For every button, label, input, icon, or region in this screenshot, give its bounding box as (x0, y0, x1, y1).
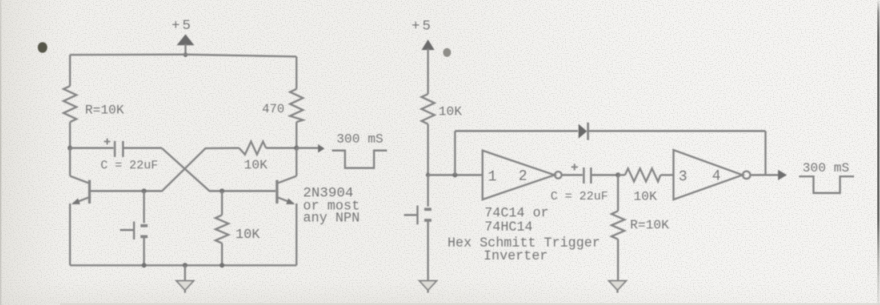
inverter U1A (pins 1,2) (483, 151, 555, 200)
node: Q1 collector junction (68, 146, 73, 151)
bubble U1A (555, 172, 562, 179)
svg-text:R=10K: R=10K (630, 218, 669, 233)
resistor R3 470 (290, 89, 303, 122)
wire: collector node to C1 (70, 147, 114, 149)
wire: C3 to node (592, 174, 618, 176)
wire: feedback vertical left (454, 131, 456, 175)
transistor Q2 (2N3904) (277, 148, 297, 204)
svg-text:1: 1 (488, 170, 497, 186)
wire: left vertical, top rail to R1 (69, 55, 71, 86)
power arrow +5 (left) (177, 34, 195, 45)
wire: R3 to output node (296, 122, 298, 148)
transistor Q1 (2N3904, mirrored) (70, 176, 90, 204)
svg-text:10K: 10K (439, 104, 463, 119)
wire: R2 to crossover diagonal to Q1 base (91, 148, 240, 191)
wire: Q1 emitter to bottom rail (69, 204, 71, 266)
svg-text:any NPN: any NPN (303, 212, 360, 227)
ground (right circuit, input rail) (419, 281, 436, 293)
svg-text:2: 2 (519, 169, 528, 185)
wire: top rail right vertical to R3 (296, 57, 298, 89)
polarity + for C3 (571, 164, 578, 171)
resistor R5 10K (422, 94, 435, 124)
capacitor C2 (vertical) (143, 191, 145, 223)
svg-text:C = 22uF: C = 22uF (551, 190, 609, 204)
svg-text:4: 4 (712, 169, 721, 185)
output arrow (left circuit) (297, 147, 319, 149)
svg-text:Inverter: Inverter (484, 250, 548, 265)
node: C2 top junction (142, 189, 147, 194)
svg-text:C = 22uF: C = 22uF (101, 159, 159, 173)
wire: output node to R2 (266, 147, 297, 149)
node: feedback tap (453, 173, 458, 178)
capacitor C3 (22uF) plates (583, 168, 585, 184)
wire: C1 to crossover (124, 147, 162, 149)
resistor R6 10K horizontal (618, 169, 674, 182)
wire: node down to Q1 collector (69, 148, 71, 176)
resistor R7 (R=10K vertical) (612, 175, 625, 286)
polarity + for C1 (104, 138, 110, 144)
output arrow (right circuit) (778, 170, 787, 181)
waveform (left) (332, 151, 387, 169)
waveform (right) (799, 176, 854, 193)
svg-text:R=10K: R=10K (85, 103, 124, 118)
inverter U1B (pins 3,4) (674, 150, 743, 200)
node: R4 bottom (220, 263, 225, 268)
node: input rail junction (426, 173, 430, 177)
wire: crossover diagonal to Q2 base (162, 148, 276, 191)
wire: R1 to collector node (69, 122, 71, 148)
resistor R4 10K (base pulldown) (216, 191, 229, 265)
node: R4 top (220, 189, 225, 194)
svg-text:10K: 10K (236, 228, 261, 243)
wire: R5 to input node (427, 124, 429, 175)
wire: U1B output to arrow (751, 174, 779, 176)
wire: bottom rail (70, 264, 297, 266)
polarity mark for C2 (120, 222, 134, 240)
diode D1 (579, 124, 588, 139)
svg-text:470: 470 (262, 103, 285, 117)
bubble U1B (743, 171, 751, 179)
svg-text:+5: +5 (172, 18, 194, 34)
wire: feedback vertical right (765, 131, 767, 175)
svg-text:300 mS: 300 mS (337, 132, 384, 147)
resistor R1 (64, 86, 77, 122)
node: Q2 collector / output (294, 146, 299, 151)
svg-text:10K: 10K (634, 189, 658, 204)
capacitor C1 (22uF) plates (114, 141, 116, 157)
wire: feedback top left segment (455, 130, 578, 132)
node: R6/R7 junction (616, 173, 621, 178)
node: ground tap (183, 263, 188, 268)
wire: U1A output to C3 (562, 174, 583, 176)
wire: Q2 emitter to bottom rail (296, 204, 298, 266)
ground (left circuit) (176, 265, 193, 293)
svg-text:3: 3 (679, 170, 688, 186)
wire: top rail (70, 55, 297, 57)
svg-text:74HC14: 74HC14 (485, 221, 533, 236)
svg-text:300 mS: 300 mS (803, 161, 850, 176)
wire: feedback top right segment (588, 130, 766, 132)
resistor R2 10K horizontal (239, 142, 266, 155)
wire: rail to inverter 1 input (428, 174, 483, 176)
ground (right circuit, below R7) (609, 281, 626, 293)
svg-text:74C14 or: 74C14 or (485, 207, 549, 222)
node: C2 bottom (142, 263, 147, 268)
svg-text:+5: +5 (412, 19, 434, 35)
svg-text:10K: 10K (244, 158, 268, 173)
pushbutton / cap C4 on input rail (404, 175, 431, 286)
power arrow +5 (right) (422, 40, 435, 51)
